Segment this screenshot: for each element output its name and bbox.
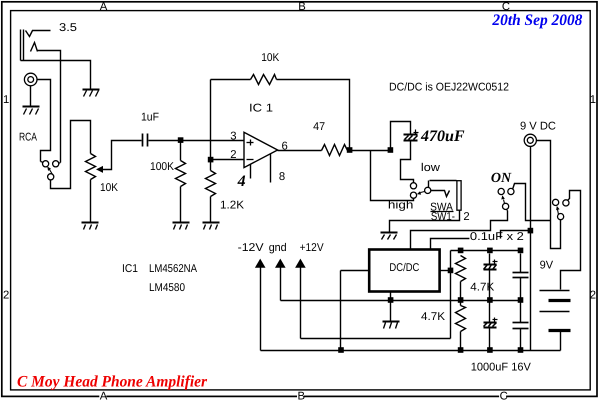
svg-text:B: B bbox=[298, 391, 306, 400]
svg-text:10K: 10K bbox=[100, 182, 118, 194]
svg-text:gnd: gnd bbox=[269, 242, 287, 254]
svg-text:ON: ON bbox=[491, 171, 512, 186]
svg-text:3.5: 3.5 bbox=[59, 22, 77, 34]
svg-text:1000uF 16V: 1000uF 16V bbox=[471, 362, 531, 374]
svg-text:2: 2 bbox=[463, 211, 469, 223]
svg-text:low: low bbox=[421, 162, 441, 174]
svg-text:9 V DC: 9 V DC bbox=[520, 121, 556, 133]
svg-text:1: 1 bbox=[590, 94, 596, 106]
svg-text:B: B bbox=[298, 1, 306, 13]
svg-text:A: A bbox=[100, 1, 108, 13]
svg-text:8: 8 bbox=[279, 171, 285, 183]
svg-text:2: 2 bbox=[3, 290, 9, 302]
svg-text:C Moy Head Phone Amplifier: C Moy Head Phone Amplifier bbox=[17, 374, 208, 391]
svg-text:+12V: +12V bbox=[300, 242, 324, 254]
svg-text:4.7K: 4.7K bbox=[470, 281, 494, 293]
svg-text:4: 4 bbox=[237, 173, 246, 190]
svg-text:LM4562NA: LM4562NA bbox=[149, 263, 197, 275]
svg-text:A: A bbox=[100, 391, 108, 400]
svg-text:C: C bbox=[502, 1, 510, 13]
svg-text:DC/DC is OEJ22WC0512: DC/DC is OEJ22WC0512 bbox=[389, 82, 509, 94]
svg-text:1: 1 bbox=[3, 94, 9, 106]
svg-text:LM4580: LM4580 bbox=[149, 282, 185, 294]
svg-text:0.1uF x 2: 0.1uF x 2 bbox=[470, 231, 524, 243]
svg-text:-12V: -12V bbox=[238, 242, 264, 254]
svg-text:100K: 100K bbox=[150, 161, 174, 173]
svg-text:9V: 9V bbox=[540, 260, 554, 272]
svg-text:RCA: RCA bbox=[19, 132, 37, 144]
svg-text:2: 2 bbox=[590, 290, 596, 302]
svg-text:IC1: IC1 bbox=[122, 263, 138, 275]
svg-text:3: 3 bbox=[230, 130, 236, 142]
svg-text:1uF: 1uF bbox=[141, 112, 159, 124]
svg-text:2: 2 bbox=[230, 149, 236, 161]
svg-text:DC/DC: DC/DC bbox=[389, 262, 419, 274]
svg-text:high: high bbox=[388, 200, 414, 212]
svg-text:4.7K: 4.7K bbox=[421, 311, 445, 323]
svg-text:470uF: 470uF bbox=[420, 128, 465, 145]
svg-text:20th Sep 2008: 20th Sep 2008 bbox=[491, 12, 582, 29]
svg-text:IC 1: IC 1 bbox=[249, 102, 273, 114]
svg-text:47: 47 bbox=[313, 121, 325, 133]
svg-text:10K: 10K bbox=[261, 52, 279, 64]
svg-text:SW1-: SW1- bbox=[431, 211, 455, 223]
svg-text:1.2K: 1.2K bbox=[220, 200, 244, 212]
svg-text:C: C bbox=[500, 391, 508, 400]
